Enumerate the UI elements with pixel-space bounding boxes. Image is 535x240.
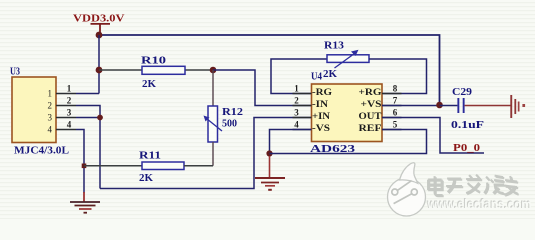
svg-text:5: 5 xyxy=(393,120,398,130)
U3 pin stubs xyxy=(56,94,76,130)
svg-text:4: 4 xyxy=(67,120,72,130)
svg-text:2K: 2K xyxy=(323,69,337,80)
wire U3 pin1 to VDD rail xyxy=(76,93,99,95)
svg-text:1: 1 xyxy=(48,89,53,99)
wire R10 junction to U4 -IN xyxy=(213,70,312,106)
wire U4 +VS to VDD junction xyxy=(382,105,440,107)
svg-text:3: 3 xyxy=(67,108,72,118)
svg-text:2: 2 xyxy=(294,96,299,106)
power VDD3.0V symbol bar xyxy=(91,24,111,34)
svg-text:OUT: OUT xyxy=(359,111,382,121)
wire U3 pin4 down to ground xyxy=(76,130,84,194)
svg-text:2K: 2K xyxy=(139,173,153,184)
svg-text:R12: R12 xyxy=(222,107,243,118)
svg-text:MJC4/3.0L: MJC4/3.0L xyxy=(14,146,69,157)
svg-text:1: 1 xyxy=(294,84,299,94)
svg-text:P0_0: P0_0 xyxy=(453,143,480,154)
node R10 right junction xyxy=(210,67,217,74)
U4 pin name labels xyxy=(312,87,332,133)
wire bottom run to U4 +IN xyxy=(100,118,312,189)
svg-text:7: 7 xyxy=(393,96,398,106)
svg-text:8: 8 xyxy=(393,84,398,94)
svg-text:2: 2 xyxy=(48,101,53,111)
svg-text:3: 3 xyxy=(48,113,53,123)
svg-text:3: 3 xyxy=(294,108,299,118)
svg-text:2: 2 xyxy=(67,96,72,106)
wire VDD top rail xyxy=(99,35,440,106)
watermark logo xyxy=(388,163,426,216)
U4 pin stubs left xyxy=(293,94,402,130)
U3 inside pin numbers xyxy=(48,89,53,135)
ground left xyxy=(70,192,100,214)
node U3 pin3 junction xyxy=(97,115,103,121)
svg-text:VDD3.0V: VDD3.0V xyxy=(73,14,125,25)
svg-text:6: 6 xyxy=(393,108,398,118)
svg-text:4: 4 xyxy=(48,125,53,135)
potentiometer R13 xyxy=(271,41,427,94)
resistor R10 xyxy=(99,56,213,91)
svg-text:+RG: +RG xyxy=(359,87,382,97)
node pin4/R11 junction xyxy=(82,164,87,169)
wire U4 OUT to P0_0 xyxy=(382,118,484,154)
node R10 left junction xyxy=(96,67,103,74)
ground middle xyxy=(255,156,285,191)
op-amp U4 AD623 xyxy=(310,72,382,156)
potentiometer R12 xyxy=(204,70,244,166)
node VDD junction xyxy=(96,32,103,39)
svg-text:R11: R11 xyxy=(139,151,161,162)
capacitor C29 xyxy=(440,87,485,131)
svg-text:C29: C29 xyxy=(452,87,472,98)
svg-text:www.elecfans.com: www.elecfans.com xyxy=(427,197,532,212)
wire C29 to right ground xyxy=(465,105,511,107)
svg-text:R13: R13 xyxy=(324,41,344,52)
svg-text:R10: R10 xyxy=(141,56,166,67)
svg-text:U4: U4 xyxy=(311,72,322,83)
svg-text:4: 4 xyxy=(294,120,299,130)
svg-text:REF: REF xyxy=(359,123,382,133)
wire U3 pin3 xyxy=(76,117,100,119)
node -VS/REF junction xyxy=(266,150,272,156)
node +VS/VDD/C29 junction xyxy=(436,102,443,109)
wire U4 -VS to ground xyxy=(270,130,312,154)
wire REF loop xyxy=(270,130,427,154)
wire U3 pin2 down xyxy=(76,106,100,189)
svg-text:+IN: +IN xyxy=(312,111,330,121)
component U3 xyxy=(10,67,69,157)
svg-text:+VS: +VS xyxy=(361,99,382,109)
power VDD3.0V label xyxy=(73,14,125,25)
svg-text:1: 1 xyxy=(67,84,72,94)
watermark chinese text xyxy=(428,175,519,197)
svg-text:0.1uF: 0.1uF xyxy=(451,120,484,131)
svg-text:500: 500 xyxy=(222,119,237,130)
resistor R11 xyxy=(84,151,213,185)
U3 outside pin numbers xyxy=(67,84,72,130)
svg-text:-IN: -IN xyxy=(312,99,328,109)
ground right xyxy=(510,95,525,118)
svg-text:U3: U3 xyxy=(10,67,20,78)
svg-text:-RG: -RG xyxy=(312,87,332,97)
svg-text:2K: 2K xyxy=(142,79,156,90)
svg-text:-VS: -VS xyxy=(312,123,330,133)
U4 outside pin numbers xyxy=(294,84,398,130)
watermark url text xyxy=(426,196,532,212)
wire VDD left vertical to U3 pin1 xyxy=(98,35,100,94)
